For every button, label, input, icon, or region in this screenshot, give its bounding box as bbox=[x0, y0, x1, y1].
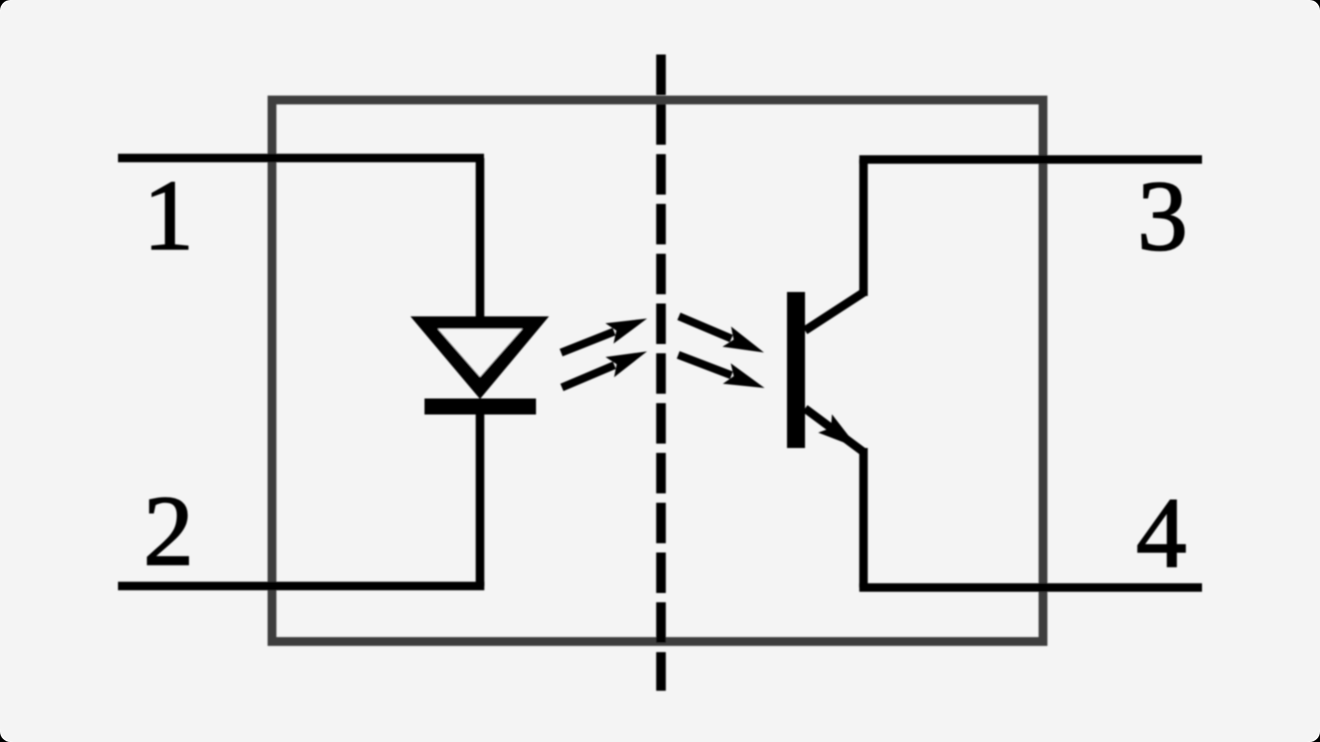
wire emitter vertical bbox=[859, 448, 868, 588]
isolation barrier (dashed line) bbox=[656, 55, 666, 691]
emitter slant bbox=[805, 409, 864, 453]
package box U1 (optocoupler body outline) bbox=[272, 100, 1043, 642]
emitter arrowhead bbox=[818, 414, 865, 457]
LED D1 cathode bar bbox=[425, 399, 537, 415]
svg-text:4: 4 bbox=[1136, 477, 1187, 589]
light arrow 1 (upper left) bbox=[557, 308, 651, 363]
light arrow 3 (upper right) bbox=[675, 306, 769, 362]
svg-text:1: 1 bbox=[143, 159, 194, 271]
wire pin 4 (emitter lead) bbox=[859, 583, 1202, 592]
svg-text:3: 3 bbox=[1137, 160, 1188, 272]
phototransistor Q1 base bar bbox=[787, 292, 805, 448]
wire pin 3 (collector lead) bbox=[859, 155, 1202, 164]
light arrow 2 (lower left) bbox=[558, 341, 652, 397]
wire pin 2 (cathode lead) bbox=[118, 582, 484, 591]
wire collector vertical bbox=[859, 160, 868, 297]
svg-text:2: 2 bbox=[143, 475, 194, 587]
wire cathode vertical bbox=[476, 410, 485, 586]
LED D1 triangle (anode) bbox=[410, 316, 549, 399]
wire pin 1 (anode lead) bbox=[118, 154, 484, 163]
collector slant bbox=[805, 293, 864, 331]
light arrow 4 (lower right) bbox=[674, 345, 768, 399]
wire anode vertical bbox=[476, 158, 485, 322]
LED D1 triangle inner cutout bbox=[438, 329, 523, 377]
